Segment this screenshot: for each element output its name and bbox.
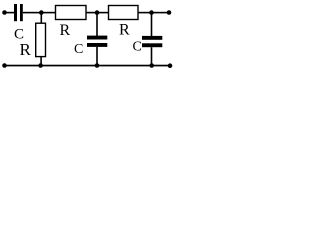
wire: resistor R3 down to ground rail bbox=[40, 57, 42, 66]
label R (resistor R1) bbox=[60, 22, 71, 39]
label C (capacitor C3) bbox=[133, 39, 142, 54]
wire: node A to resistor R1 bbox=[41, 12, 55, 14]
wire: resistor R1 to node B bbox=[86, 12, 97, 14]
junction dot: C2 to rail bbox=[95, 63, 100, 68]
svg-text:R: R bbox=[60, 22, 71, 39]
capacitor C3 (vertical, shunt) bbox=[142, 36, 162, 47]
junction dot: C3 to rail bbox=[149, 63, 154, 68]
wire: bottom ground rail bbox=[5, 65, 172, 67]
terminal dot: input top-left bbox=[2, 10, 7, 15]
node B junction dot bbox=[95, 10, 100, 15]
junction dot: R3 to rail bbox=[38, 63, 43, 68]
label C (capacitor C2) bbox=[74, 42, 83, 57]
terminal dot: bottom-left bbox=[2, 63, 7, 68]
resistor R1 (horizontal, top) bbox=[56, 6, 87, 20]
wire: node A down to resistor R3 bbox=[41, 13, 43, 24]
wire: resistor R2 to node C bbox=[138, 12, 152, 14]
node C junction dot bbox=[149, 10, 154, 15]
label C (series capacitor) bbox=[14, 27, 24, 43]
label R (resistor R3) bbox=[20, 40, 32, 59]
wire: node B down to capacitor C2 bbox=[96, 13, 98, 37]
wire: node B to resistor R2 bbox=[97, 12, 109, 14]
resistor R3 (vertical, shunt) bbox=[36, 23, 46, 56]
wire: node C down to capacitor C3 bbox=[151, 13, 153, 37]
capacitor C2 (vertical, shunt) bbox=[87, 36, 107, 47]
svg-text:R: R bbox=[20, 40, 32, 59]
node A junction dot bbox=[39, 10, 44, 15]
capacitor C (series, input) bbox=[14, 4, 23, 21]
resistor R2 (horizontal, top) bbox=[109, 6, 139, 20]
svg-text:C: C bbox=[74, 42, 83, 57]
wire: capacitor C3 down to ground rail bbox=[151, 47, 153, 65]
wire: node C to output terminal bbox=[152, 12, 170, 14]
label R (resistor R2) bbox=[119, 22, 130, 39]
wire: series capacitor to node A bbox=[23, 12, 42, 14]
wire: capacitor C2 down to ground rail bbox=[96, 47, 98, 66]
svg-text:C: C bbox=[133, 39, 142, 54]
terminal dot: bottom-right bbox=[168, 63, 173, 68]
svg-text:R: R bbox=[119, 22, 130, 39]
terminal dot: output top-right bbox=[167, 10, 172, 15]
wire: input to series capacitor bbox=[5, 12, 15, 14]
